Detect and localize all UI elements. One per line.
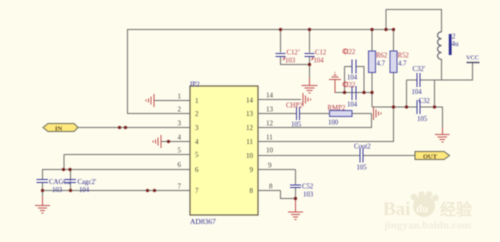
svg-text:8: 8 bbox=[250, 187, 254, 195]
svg-text:JP2: JP2 bbox=[190, 80, 201, 88]
svg-text:R52: R52 bbox=[398, 53, 410, 60]
svg-text:103: 103 bbox=[52, 187, 63, 194]
svg-text:du: du bbox=[416, 203, 428, 215]
svg-text:8: 8 bbox=[269, 183, 273, 191]
svg-text:VCC: VCC bbox=[466, 55, 479, 62]
svg-text:104: 104 bbox=[412, 89, 423, 96]
svg-text:✗: ✗ bbox=[311, 57, 315, 63]
svg-text:1: 1 bbox=[178, 93, 182, 101]
svg-text:9: 9 bbox=[268, 162, 272, 170]
svg-text:IN: IN bbox=[55, 126, 63, 133]
svg-text:C12’: C12’ bbox=[287, 50, 301, 57]
svg-text:13: 13 bbox=[266, 106, 274, 114]
svg-text:OUT: OUT bbox=[423, 154, 438, 161]
svg-text:105: 105 bbox=[291, 122, 302, 129]
svg-text:12: 12 bbox=[246, 124, 254, 132]
svg-text:4.7: 4.7 bbox=[398, 61, 407, 68]
svg-text:104: 104 bbox=[347, 102, 358, 109]
svg-text:✗: ✗ bbox=[282, 57, 286, 63]
svg-text:4: 4 bbox=[178, 134, 182, 142]
svg-text:13: 13 bbox=[246, 110, 254, 118]
svg-text:2: 2 bbox=[178, 106, 182, 114]
svg-text:R62: R62 bbox=[376, 53, 388, 60]
svg-text:C12: C12 bbox=[315, 50, 327, 57]
svg-text:10: 10 bbox=[266, 147, 274, 155]
svg-text:5: 5 bbox=[178, 147, 182, 155]
svg-text:C32: C32 bbox=[419, 98, 431, 105]
svg-text:4.7: 4.7 bbox=[377, 61, 386, 68]
svg-text:经验: 经验 bbox=[440, 200, 473, 219]
svg-text:104: 104 bbox=[347, 75, 358, 82]
svg-text:105: 105 bbox=[417, 116, 428, 123]
svg-text:Cout2: Cout2 bbox=[354, 144, 371, 151]
svg-text:7: 7 bbox=[178, 183, 182, 191]
svg-text:4: 4 bbox=[195, 138, 199, 146]
svg-text:14: 14 bbox=[246, 97, 254, 105]
svg-text:10: 10 bbox=[246, 152, 254, 160]
svg-text:Bai: Bai bbox=[383, 199, 410, 220]
svg-text:2: 2 bbox=[195, 110, 199, 118]
svg-text:103: 103 bbox=[303, 192, 314, 199]
svg-text:C52: C52 bbox=[302, 184, 314, 191]
svg-text:RMP2: RMP2 bbox=[328, 105, 346, 112]
svg-text:3: 3 bbox=[195, 124, 199, 132]
svg-text:103: 103 bbox=[285, 58, 296, 65]
svg-text:AD8367: AD8367 bbox=[190, 217, 216, 226]
svg-text:14: 14 bbox=[266, 92, 274, 100]
svg-text:Cagc2': Cagc2' bbox=[78, 179, 97, 186]
svg-text:1: 1 bbox=[195, 97, 199, 105]
svg-text:3: 3 bbox=[178, 120, 182, 128]
svg-text:C22: C22 bbox=[344, 82, 356, 89]
svg-text:C22: C22 bbox=[344, 49, 356, 56]
svg-text:105: 105 bbox=[357, 165, 368, 172]
svg-text:6: 6 bbox=[178, 161, 182, 169]
svg-text:CHP2: CHP2 bbox=[286, 103, 303, 110]
svg-text:11: 11 bbox=[246, 138, 253, 146]
svg-text:100: 100 bbox=[328, 120, 339, 127]
svg-text:jingyan.baidu.com: jingyan.baidu.com bbox=[383, 220, 471, 232]
svg-text:104: 104 bbox=[79, 187, 90, 194]
svg-text:CAGC2: CAGC2 bbox=[49, 179, 72, 186]
svg-text:4u: 4u bbox=[452, 40, 460, 48]
svg-text:11: 11 bbox=[266, 134, 273, 142]
svg-text:C32': C32' bbox=[413, 66, 426, 73]
svg-text:6: 6 bbox=[195, 166, 199, 174]
svg-text:5: 5 bbox=[195, 151, 199, 159]
svg-text:9: 9 bbox=[250, 166, 254, 174]
svg-text:7: 7 bbox=[195, 187, 199, 195]
svg-text:12: 12 bbox=[266, 120, 274, 128]
svg-text:104: 104 bbox=[314, 58, 325, 65]
